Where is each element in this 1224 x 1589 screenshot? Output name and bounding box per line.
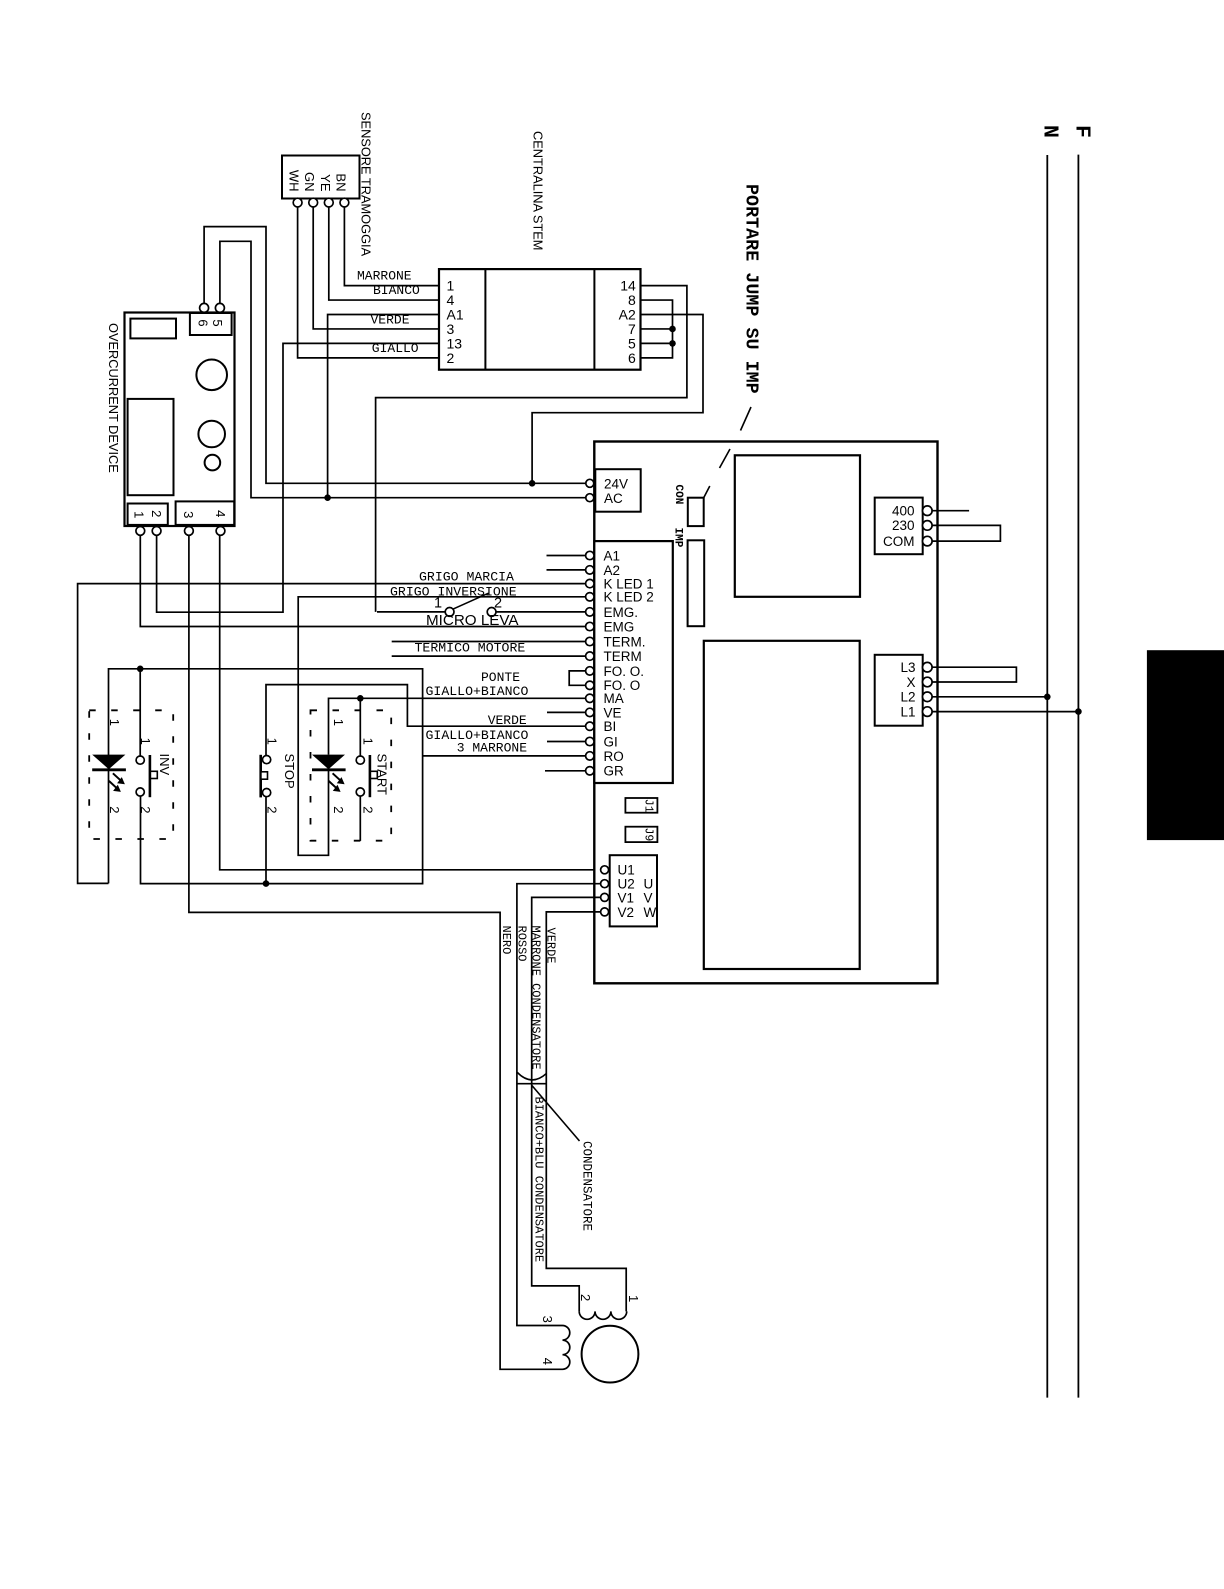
svg-text:1: 1 bbox=[361, 738, 376, 745]
J1 box bbox=[625, 798, 657, 813]
STOP actuator square bbox=[261, 772, 268, 779]
svg-text:BN: BN bbox=[333, 173, 348, 191]
svg-text:ROSSO: ROSSO bbox=[514, 926, 528, 962]
terminal VE bbox=[586, 708, 594, 716]
wire START contact 2 stub bbox=[359, 796, 361, 841]
inner box upper bbox=[735, 455, 860, 597]
overcurrent bottom terminal 3 bbox=[185, 527, 194, 536]
junction pin 5 bbox=[669, 340, 676, 347]
sensor terminal 1 bbox=[293, 198, 302, 207]
svg-text:MARRONE: MARRONE bbox=[357, 269, 412, 284]
svg-text:24V: 24V bbox=[604, 476, 628, 491]
svg-text:230: 230 bbox=[892, 518, 915, 533]
wire MARRONE CONDENSATORE V1 to coil 2 bbox=[532, 897, 601, 1311]
INV contact bar bbox=[149, 755, 152, 797]
centralina divider right bbox=[593, 269, 595, 370]
condensatore brace bar bbox=[517, 1083, 546, 1085]
terminal EMG bbox=[586, 622, 594, 630]
svg-text:2: 2 bbox=[331, 806, 346, 813]
svg-text:MA: MA bbox=[604, 691, 624, 706]
terminal U2 bbox=[601, 880, 609, 888]
svg-text:400: 400 bbox=[892, 504, 915, 519]
terminal RO bbox=[586, 752, 594, 760]
wire pin 5 tie bbox=[641, 342, 673, 344]
svg-text:MARRONE CONDENSATORE: MARRONE CONDENSATORE bbox=[528, 926, 542, 1070]
wire pins 8-6 tie bbox=[641, 300, 673, 358]
LED INV cathode bar bbox=[92, 768, 126, 771]
box CENTRALINA STEM bbox=[439, 269, 641, 370]
wire L1 to F bbox=[932, 711, 1079, 713]
terminal FO. O bbox=[586, 681, 594, 689]
svg-text:EMG.: EMG. bbox=[604, 605, 639, 620]
junction A1/AC bbox=[324, 494, 331, 501]
overcurrent terminal box 5-6 bbox=[190, 313, 232, 335]
sensor terminal 3 bbox=[324, 198, 333, 207]
LED INV emission arrows bbox=[109, 773, 122, 789]
wire pin 7 tie bbox=[641, 328, 673, 330]
terminal X bbox=[923, 677, 933, 687]
svg-text:WH: WH bbox=[287, 170, 302, 192]
svg-text:1: 1 bbox=[331, 719, 346, 726]
START contact bar bbox=[369, 755, 372, 797]
svg-text:3: 3 bbox=[181, 511, 196, 518]
svg-text:V2: V2 bbox=[618, 905, 635, 920]
svg-text:FO. O.: FO. O. bbox=[604, 664, 645, 679]
terminal U1 bbox=[601, 866, 609, 874]
terminal V1 bbox=[601, 893, 609, 901]
terminal EMG. bbox=[586, 608, 594, 616]
terminal GI bbox=[586, 737, 594, 745]
wire TERM (termico motore) bbox=[392, 655, 586, 657]
wire EMG. left part bbox=[377, 611, 445, 613]
wire A1 stub bbox=[547, 555, 586, 557]
wire VERDE (GN to pin 3) bbox=[313, 207, 439, 329]
wire VE stub bbox=[547, 711, 585, 713]
svg-text:RO: RO bbox=[604, 749, 624, 764]
leader segment 2 bbox=[720, 449, 731, 468]
wire N line bbox=[1046, 155, 1048, 1398]
terminal 400 bbox=[923, 506, 933, 516]
svg-text:6: 6 bbox=[628, 350, 636, 366]
svg-text:V: V bbox=[644, 890, 653, 905]
wire GIALLO+BIANCO BI to STOP contact 1 bbox=[266, 685, 585, 757]
INV contact circle 1 bbox=[136, 756, 144, 764]
wire overcurrent 1 to EMG bbox=[140, 535, 585, 626]
svg-text:VERDE: VERDE bbox=[544, 928, 558, 964]
svg-text:1: 1 bbox=[132, 511, 147, 518]
wire L2 to N bbox=[932, 696, 1048, 698]
terminal L2 bbox=[923, 692, 933, 702]
wire pin 14 to MICRO LEVA net bbox=[376, 286, 687, 612]
box OVERCURRENT DEVICE bbox=[125, 313, 235, 527]
LED START (diode triangle) bbox=[312, 755, 345, 770]
dashed box INV group bbox=[89, 710, 173, 839]
motor coil 1-2 bbox=[579, 1311, 627, 1319]
svg-text:CONDENSATORE: CONDENSATORE bbox=[580, 1141, 594, 1231]
terminal FO. O. bbox=[586, 667, 594, 675]
svg-text:GI: GI bbox=[604, 734, 618, 749]
svg-text:TERM.: TERM. bbox=[604, 634, 646, 649]
big controller box bbox=[594, 442, 937, 984]
svg-text:YE: YE bbox=[318, 174, 333, 192]
junction MA/START 1 bbox=[357, 695, 364, 702]
IMP jumper rect bbox=[688, 540, 705, 626]
svg-text:J9: J9 bbox=[642, 828, 655, 842]
svg-text:2: 2 bbox=[149, 510, 164, 517]
sensor terminal 4 bbox=[340, 198, 349, 207]
svg-text:AC: AC bbox=[604, 491, 623, 506]
svg-text:GIALLO+BIANCO: GIALLO+BIANCO bbox=[426, 684, 529, 699]
svg-text:2: 2 bbox=[361, 806, 376, 813]
MICRO LEVA lever bbox=[453, 593, 489, 609]
condensatore leader line bbox=[532, 1085, 580, 1141]
junction pin 7 bbox=[669, 326, 676, 333]
svg-text:2: 2 bbox=[494, 596, 502, 612]
LED START cathode bar bbox=[312, 768, 346, 771]
terminal MA bbox=[586, 694, 594, 702]
wire STOP contact 2 riser bbox=[265, 796, 267, 884]
wire GIALLO+BIANCO MA to START LED bbox=[329, 698, 586, 754]
svg-text:BI: BI bbox=[604, 719, 617, 734]
svg-text:1: 1 bbox=[626, 1295, 641, 1302]
svg-text:U1: U1 bbox=[618, 863, 635, 878]
wire GIALLO (WH to pin 2) bbox=[298, 207, 439, 358]
overcurrent bottom terminal 2 bbox=[152, 527, 161, 536]
wire RO to switch net bbox=[423, 755, 586, 757]
svg-text:CON: CON bbox=[672, 485, 684, 505]
svg-text:EMG: EMG bbox=[604, 619, 635, 634]
wire 400 stub bbox=[932, 510, 970, 512]
CON jumper lever bbox=[704, 486, 710, 498]
terminal 24V bbox=[586, 479, 594, 487]
U V W terminal box bbox=[610, 855, 657, 926]
svg-text:GR: GR bbox=[604, 764, 625, 779]
svg-text:X: X bbox=[906, 675, 915, 690]
condensatore group brace bbox=[517, 1072, 546, 1080]
svg-text:VE: VE bbox=[604, 705, 622, 720]
sensor terminal 2 bbox=[309, 198, 318, 207]
START contact circle 1 bbox=[356, 756, 364, 764]
terminal COM bbox=[923, 536, 933, 546]
wire jumper 230-COM bbox=[932, 525, 1001, 541]
wire pin A2 to 24V bbox=[532, 315, 703, 484]
terminal L3 bbox=[923, 662, 933, 672]
svg-text:1: 1 bbox=[434, 596, 442, 612]
STOP contact circle 1 bbox=[263, 756, 271, 764]
svg-text:2: 2 bbox=[138, 806, 153, 813]
svg-text:COM: COM bbox=[883, 534, 915, 549]
svg-text:2: 2 bbox=[264, 806, 279, 813]
svg-text:SENSORE TRAMOGGIA: SENSORE TRAMOGGIA bbox=[359, 112, 374, 257]
junction L1/F bbox=[1075, 708, 1082, 715]
svg-text:F: F bbox=[1070, 125, 1094, 138]
terminal GR bbox=[586, 767, 594, 775]
wire overcurrent 4 to U1 bbox=[220, 535, 601, 870]
junction STOP contact 2 bottom bbox=[263, 880, 270, 887]
wire ROSSO U2 to coil 3 bbox=[517, 884, 600, 1326]
terminal AC bbox=[586, 494, 594, 502]
wire PONTE bridge FO.O.-FO.O bbox=[569, 671, 585, 685]
svg-text:TERM: TERM bbox=[604, 649, 642, 664]
overcurrent terminal box 3-4 bbox=[176, 501, 235, 525]
LED START emission arrows bbox=[329, 773, 342, 789]
STOP contact bar bbox=[259, 755, 262, 798]
wire TERM. (termico motore) bbox=[392, 641, 586, 643]
wire pin A1 to AC bbox=[328, 315, 439, 498]
J9 box bbox=[625, 827, 657, 842]
svg-text:L3: L3 bbox=[900, 660, 915, 675]
overcurrent terminal 5 (right) bbox=[215, 303, 224, 312]
START contact circle 2 bbox=[356, 788, 364, 796]
svg-text:2: 2 bbox=[578, 1294, 593, 1301]
motor body circle bbox=[582, 1326, 639, 1383]
svg-text:1: 1 bbox=[107, 719, 122, 726]
overcurrent bottom terminal 1 bbox=[136, 527, 145, 536]
svg-text:GN: GN bbox=[302, 172, 317, 192]
wire jumper L3-X bbox=[932, 667, 1017, 682]
terminal TERM. bbox=[586, 637, 594, 645]
junction INV contact 1 top bbox=[137, 666, 144, 673]
wire GRIGO MARCIA / K LED 1 to INV LED bbox=[78, 584, 586, 884]
voltage select box 400 230 COM bbox=[875, 498, 923, 555]
svg-text:IMP: IMP bbox=[672, 528, 684, 548]
INV actuator square bbox=[150, 771, 157, 778]
sensor box SENSORE TRAMOGGIA bbox=[282, 156, 360, 199]
svg-text:5: 5 bbox=[210, 319, 225, 326]
wire MARRONE (BN to pin 1) bbox=[344, 207, 439, 286]
wire VERDE / BIANCO+BLU V2 to coil 1 bbox=[546, 912, 626, 1312]
svg-text:A1: A1 bbox=[604, 548, 621, 563]
overcurrent middle circle bbox=[198, 421, 225, 448]
overcurrent small circle bbox=[205, 455, 221, 471]
svg-text:INV: INV bbox=[157, 754, 172, 776]
overcurrent tall rect bbox=[128, 399, 174, 495]
terminal strip box bbox=[594, 541, 673, 783]
START actuator square bbox=[370, 771, 377, 778]
black marker rectangle bbox=[1147, 650, 1224, 840]
svg-text:2: 2 bbox=[447, 350, 455, 366]
svg-text:NERO: NERO bbox=[499, 926, 513, 955]
terminal 230 bbox=[923, 521, 933, 531]
svg-text:TERMICO MOTORE: TERMICO MOTORE bbox=[415, 641, 526, 656]
wire INV contact 1 riser bbox=[139, 669, 141, 757]
svg-text:MICRO LEVA: MICRO LEVA bbox=[426, 612, 519, 629]
overcurrent bottom terminal 4 bbox=[216, 527, 225, 536]
wire START contact 1 riser bbox=[359, 698, 361, 756]
wire INV LED loop / bottom bus bbox=[109, 669, 423, 884]
terminal K LED 2 bbox=[586, 593, 594, 601]
svg-text:6: 6 bbox=[195, 319, 210, 326]
wire GRIGO INVERSIONE / K LED 2 to START LED bbox=[298, 597, 585, 856]
terminal K LED 1 bbox=[586, 579, 594, 587]
svg-text:V1: V1 bbox=[618, 890, 635, 905]
wire overcurrent 3 NERO to motor coil 4 bbox=[189, 535, 563, 1369]
svg-text:1: 1 bbox=[264, 738, 279, 745]
svg-text:W: W bbox=[644, 905, 657, 920]
centralina divider left bbox=[484, 269, 486, 370]
svg-text:3: 3 bbox=[540, 1316, 555, 1323]
overcurrent big circle bbox=[196, 360, 227, 391]
motor coil 3-4 bbox=[563, 1326, 570, 1370]
INV contact circle 2 bbox=[136, 788, 144, 796]
svg-text:K LED 2: K LED 2 bbox=[604, 590, 654, 605]
dashed box START group bbox=[311, 710, 392, 840]
wire GR stub bbox=[545, 770, 585, 772]
LED INV (diode triangle) bbox=[92, 755, 125, 770]
svg-text:STOP: STOP bbox=[282, 754, 297, 789]
wire F line bbox=[1077, 155, 1079, 1398]
svg-text:2: 2 bbox=[107, 806, 122, 813]
MICRO LEVA contact 1 bbox=[445, 608, 454, 617]
terminal V2 bbox=[601, 908, 609, 916]
wire EMG. right part bbox=[496, 611, 585, 613]
svg-text:1: 1 bbox=[138, 738, 153, 745]
inner box lower bbox=[704, 641, 860, 969]
CON jumper rect bbox=[688, 498, 704, 526]
svg-text:START: START bbox=[375, 754, 390, 795]
svg-text:3 MARRONE: 3 MARRONE bbox=[457, 741, 527, 756]
leader segment 1 bbox=[741, 407, 752, 431]
svg-text:GRIGO MARCIA: GRIGO MARCIA bbox=[419, 570, 514, 585]
svg-text:4: 4 bbox=[213, 510, 228, 517]
svg-text:J1: J1 bbox=[642, 799, 655, 813]
svg-text:CENTRALINA STEM: CENTRALINA STEM bbox=[531, 131, 546, 250]
wire overcurrent 5 to AC bbox=[220, 241, 586, 497]
svg-text:BIANCO: BIANCO bbox=[373, 283, 420, 298]
svg-text:L1: L1 bbox=[900, 704, 915, 719]
terminal L1 bbox=[923, 707, 933, 717]
junction A2/24V bbox=[529, 480, 536, 487]
wire A2 stub bbox=[547, 569, 586, 571]
terminal TERM bbox=[586, 652, 594, 660]
junction L2/N bbox=[1044, 694, 1051, 701]
terminal BI bbox=[586, 722, 594, 730]
terminal A2 bbox=[586, 566, 594, 574]
wire BIANCO (YE to pin 4) bbox=[329, 207, 439, 300]
svg-text:4: 4 bbox=[540, 1358, 555, 1365]
svg-text:PORTARE JUMP SU IMP: PORTARE JUMP SU IMP bbox=[741, 184, 762, 394]
wire GI stub bbox=[547, 741, 585, 743]
overcurrent top small rect bbox=[130, 319, 176, 339]
svg-text:L2: L2 bbox=[900, 690, 915, 705]
overcurrent terminal 6 (left) bbox=[200, 303, 209, 312]
24V AC box bbox=[595, 469, 640, 512]
wire overcurrent 6 to 24V bbox=[204, 227, 585, 484]
svg-text:OVERCURRENT DEVICE: OVERCURRENT DEVICE bbox=[106, 323, 121, 473]
MICRO LEVA contact 2 bbox=[487, 608, 496, 617]
terminal A1 bbox=[586, 551, 594, 559]
line terminal box L3 X L2 L1 bbox=[875, 655, 923, 726]
wire pin 13 to overcurrent pin 2 bbox=[157, 343, 439, 612]
overcurrent terminal box 1-2 bbox=[128, 504, 168, 525]
svg-text:PONTE: PONTE bbox=[481, 670, 520, 685]
STOP contact circle 2 bbox=[263, 789, 271, 797]
svg-text:BIANCO+BLU CONDENSATORE: BIANCO+BLU CONDENSATORE bbox=[532, 1097, 546, 1263]
svg-text:N: N bbox=[1038, 125, 1062, 138]
